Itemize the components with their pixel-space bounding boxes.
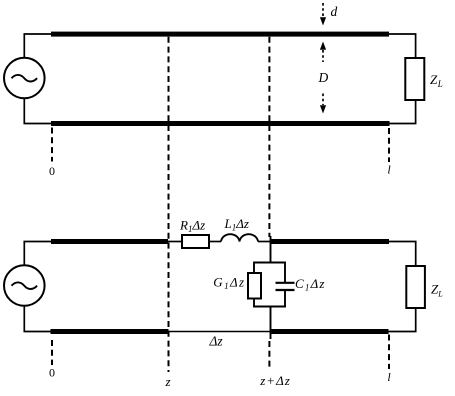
arrow d (dashed, pointing down to top conductor): [322, 3, 324, 17]
load ZL2: [406, 266, 425, 308]
dashed reference line at 0 (bottom diagram): [51, 340, 53, 365]
wire inductor to node z+dz: [258, 241, 271, 243]
svg-text:d: d: [331, 4, 338, 19]
wire resistor to inductor: [209, 241, 221, 243]
svg-text:0: 0: [49, 366, 55, 380]
svg-text:l: l: [387, 163, 391, 177]
wire into resistor R1dz: [166, 241, 182, 243]
dashed reference line at z+dz (top part): [268, 37, 270, 237]
capacitor C1dz bottom plate: [276, 289, 295, 291]
inductor L1dz: [221, 234, 258, 241]
wire load ZL1 to bottom conductor: [388, 100, 416, 124]
svg-text:L1Δz: L1Δz: [224, 216, 249, 233]
bottom conductor (thick): [51, 121, 390, 126]
bottom-right conductor segment (thick): [270, 329, 389, 334]
dashed reference line at z (runs through both diagrams): [168, 37, 170, 372]
right shunt branch lower wire: [284, 290, 286, 308]
dashed reference line at position 0 (top diagram): [51, 128, 53, 162]
top conductor (thick): [51, 32, 389, 37]
svg-text:R1Δz: R1Δz: [179, 218, 205, 235]
svg-text:ZL: ZL: [430, 72, 443, 89]
svg-text:0: 0: [49, 164, 55, 178]
dashed line below z+dz node: [268, 341, 270, 370]
wire top conductor to load ZL1: [388, 34, 416, 58]
AC source V2: [4, 265, 45, 306]
bottom-left conductor segment (thick): [51, 329, 169, 334]
left shunt branch lower wire: [253, 298, 255, 308]
wire from source V1 top terminal to top conductor: [24, 34, 51, 59]
dashed reference line at l (bottom diagram): [388, 335, 390, 370]
top-right conductor segment (thick): [270, 239, 389, 244]
AC source V1: [4, 58, 45, 99]
wire load ZL2 to bottom conductor: [388, 308, 416, 332]
svg-text:z: z: [164, 374, 170, 389]
wire from source V1 bottom terminal to bottom conductor: [24, 98, 51, 124]
svg-text:G1Δz: G1Δz: [213, 275, 245, 292]
capacitor C1dz top plate: [276, 282, 295, 284]
svg-text:Δz: Δz: [209, 334, 224, 349]
svg-text:D: D: [318, 70, 329, 85]
svg-text:l: l: [387, 370, 391, 384]
top-left conductor segment (thick): [51, 239, 168, 244]
wire from source V2 top to conductor: [24, 242, 51, 267]
conductance G1dz (box): [248, 273, 261, 299]
svg-text:ZL: ZL: [431, 282, 443, 299]
svg-text:C1Δz: C1Δz: [295, 276, 326, 293]
thin bottom wire across dz section: [169, 331, 271, 333]
left shunt branch upper wire: [253, 262, 255, 275]
resistor R1dz: [182, 235, 209, 248]
wire from source V2 bottom to conductor: [24, 306, 51, 332]
load ZL1: [405, 58, 424, 100]
arrow D lower (pointing down to bottom conductor top): [322, 94, 324, 106]
wire top conductor to load ZL2: [388, 242, 416, 267]
arrow D upper (pointing up to top conductor underside): [320, 42, 326, 50]
svg-text:z+Δz: z+Δz: [259, 373, 291, 388]
shunt wire down to bottom conductor: [270, 307, 272, 340]
right shunt branch upper wire: [284, 262, 286, 283]
node z+dz vertical wire down to shunt pair: [270, 236, 272, 263]
shunt pair top rail: [254, 262, 285, 264]
dashed reference line at l (top diagram): [388, 128, 390, 162]
shunt pair bottom rail: [254, 306, 285, 308]
